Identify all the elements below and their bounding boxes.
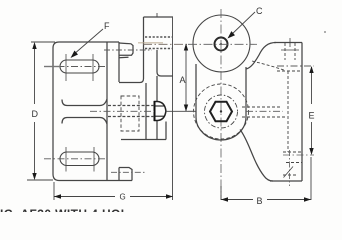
svg-text:E: E [309,111,315,121]
svg-text:D: D [32,109,39,119]
svg-text:G: G [120,193,126,202]
svg-text:F: F [104,21,110,31]
svg-text:IG. AF30 WITH 4 HOL: IG. AF30 WITH 4 HOL [0,207,129,212]
svg-text:C: C [256,6,263,16]
svg-text:B: B [257,196,263,206]
svg-text:A: A [180,75,186,85]
